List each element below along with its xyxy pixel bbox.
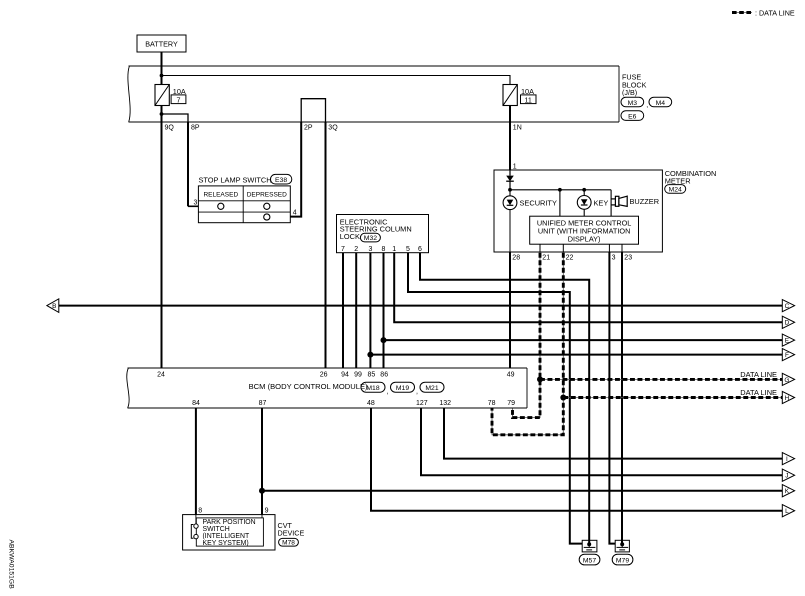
park switch contact bottom	[194, 534, 198, 538]
svg-text:BATTERY: BATTERY	[145, 40, 178, 49]
svg-text:D: D	[785, 320, 790, 327]
svg-text:4: 4	[293, 209, 297, 216]
node meter supply junction	[508, 188, 512, 192]
svg-text:M79: M79	[616, 557, 629, 564]
wire junction to UMCU	[559, 190, 561, 216]
svg-text:E6: E6	[628, 114, 637, 121]
svg-text:24: 24	[157, 372, 165, 379]
svg-text:2P: 2P	[304, 125, 313, 132]
svg-text:,: ,	[646, 102, 648, 109]
svg-text:1: 1	[392, 246, 396, 253]
wire BCM 132 to connector I	[444, 408, 782, 459]
horizontal wire B to C	[59, 305, 783, 307]
svg-text:22: 22	[566, 255, 574, 262]
svg-text:132: 132	[439, 400, 451, 407]
svg-text:78: 78	[488, 400, 496, 407]
svg-text:SECURITY: SECURITY	[520, 198, 557, 207]
svg-text:87: 87	[259, 400, 267, 407]
stop lamp switch table	[198, 186, 290, 223]
connector arrow C	[782, 300, 794, 312]
switch contact released	[218, 203, 224, 209]
BCM box	[127, 368, 527, 408]
svg-text:7: 7	[341, 246, 345, 253]
connector M57	[579, 554, 600, 565]
svg-text:3: 3	[368, 246, 372, 253]
svg-text:DATA LINE: DATA LINE	[740, 388, 777, 397]
wire meter internal bus	[510, 189, 611, 191]
svg-text:3: 3	[194, 199, 198, 206]
wire branch E to connector	[384, 339, 783, 341]
svg-text:85: 85	[368, 372, 376, 379]
wire meter 23 to ground M79	[621, 244, 623, 252]
node fuse output junction	[160, 112, 164, 116]
svg-text:LOCK: LOCK	[340, 232, 360, 241]
svg-text:DEPRESSED: DEPRESSED	[247, 191, 287, 198]
svg-text:127: 127	[416, 400, 428, 407]
wire ESCL pin6 to ground M57	[420, 253, 589, 545]
svg-text:DATA LINE: DATA LINE	[740, 370, 777, 379]
connector M24	[665, 185, 686, 194]
connector arrow H	[782, 391, 794, 403]
connector arrow L	[782, 505, 794, 517]
svg-text:84: 84	[192, 400, 200, 407]
wire BCM 127 to connector J	[421, 408, 782, 475]
svg-text:E38: E38	[275, 177, 287, 184]
connector arrow J	[782, 469, 794, 481]
svg-text:M78: M78	[282, 540, 295, 547]
svg-text:M3: M3	[628, 100, 638, 107]
svg-text:DISPLAY): DISPLAY)	[568, 235, 601, 244]
connector M4	[649, 97, 672, 107]
svg-text:9: 9	[265, 507, 269, 514]
svg-text:C: C	[785, 303, 790, 310]
svg-text:M21: M21	[425, 385, 438, 392]
ground M57	[582, 540, 597, 552]
svg-text:23: 23	[624, 255, 632, 262]
svg-text:5: 5	[406, 246, 410, 253]
svg-text:3Q: 3Q	[328, 125, 338, 132]
svg-text:8P: 8P	[191, 125, 200, 132]
svg-text:I: I	[786, 456, 788, 463]
node buzzer branch	[582, 188, 586, 192]
svg-text:11: 11	[524, 95, 531, 104]
connector M18	[361, 382, 389, 395]
buzzer	[611, 196, 659, 206]
svg-text:1N: 1N	[513, 125, 522, 132]
legend data line sample	[732, 12, 752, 14]
svg-text:F: F	[785, 352, 789, 359]
connector arrow I	[782, 453, 794, 465]
wire inner bus	[162, 76, 511, 85]
svg-text:48: 48	[367, 400, 375, 407]
svg-text:B: B	[52, 303, 56, 310]
svg-text:M57: M57	[583, 557, 596, 564]
wire meter 21 data line to BCM 79	[539, 244, 541, 252]
wire meter 3 to ground M79	[608, 244, 610, 252]
svg-text:2: 2	[354, 246, 358, 253]
park switch contact top	[194, 524, 198, 528]
wire ESCL pin8 to BCM 86	[383, 253, 385, 368]
svg-text:1: 1	[513, 164, 517, 171]
svg-text:6: 6	[418, 246, 422, 253]
svg-text:PARK POSITION: PARK POSITION	[203, 519, 256, 526]
node branch E	[381, 337, 387, 343]
connector arrow K	[782, 485, 794, 497]
svg-text:86: 86	[380, 372, 388, 379]
fuse block label	[622, 73, 647, 98]
svg-text:9Q: 9Q	[165, 125, 175, 132]
svg-text:99: 99	[354, 372, 362, 379]
svg-text:RELEASED: RELEASED	[203, 191, 238, 198]
wire BCM 48 to connector L	[371, 408, 782, 511]
fuse block (J/B) outline	[128, 66, 619, 122]
svg-text:KEY SYSTEM): KEY SYSTEM)	[203, 540, 249, 547]
svg-text:21: 21	[542, 255, 550, 262]
connector E6	[621, 111, 644, 121]
svg-text:(INTELLIGENT: (INTELLIGENT	[203, 533, 251, 540]
connector arrow E	[782, 334, 794, 346]
wire key led to UMCU	[583, 210, 585, 217]
wire ESCL pin7 to BCM 94	[342, 253, 344, 368]
park switch pin8 internal stub	[195, 515, 197, 524]
connector arrow B (left)	[47, 299, 59, 313]
key indicator LED	[577, 190, 608, 210]
combination meter label	[665, 169, 717, 186]
svg-text:3: 3	[612, 255, 616, 262]
unified meter control unit box	[530, 216, 639, 244]
node key branch	[558, 188, 562, 192]
fuse 11 10A	[503, 85, 536, 106]
stop lamp switch E38 title	[199, 174, 292, 184]
svg-text:7: 7	[177, 95, 181, 104]
svg-text:79: 79	[507, 400, 515, 407]
svg-text:L: L	[785, 508, 789, 515]
svg-text:M24: M24	[669, 187, 682, 194]
svg-text:,: ,	[416, 389, 418, 396]
CVT device label	[278, 521, 305, 537]
connector M78	[279, 538, 299, 546]
svg-text:BUZZER: BUZZER	[630, 197, 660, 206]
electronic steering column lock M32 box	[337, 215, 429, 253]
wire ESCL pin2 to BCM 99	[355, 253, 357, 368]
svg-text:M18: M18	[366, 385, 379, 392]
park position switch box	[183, 515, 275, 550]
wire ESCL pin5 to ground M57	[408, 253, 582, 544]
svg-text:(J/B): (J/B)	[622, 88, 637, 97]
svg-text:KEY: KEY	[594, 198, 609, 207]
data line wire H	[563, 397, 782, 399]
svg-text:M32: M32	[364, 235, 377, 242]
svg-text:26: 26	[320, 372, 328, 379]
wire buzzer feed	[610, 190, 612, 216]
svg-text:ABKWA0151GB: ABKWA0151GB	[8, 540, 15, 590]
wire battery to fuse block	[161, 52, 163, 85]
svg-text:G: G	[784, 377, 789, 384]
svg-text:28: 28	[512, 255, 520, 262]
wire security to BCM 49	[509, 210, 511, 252]
svg-text:K: K	[785, 488, 790, 495]
node battery bus junction	[160, 74, 164, 78]
diode D1	[506, 170, 514, 190]
connector M19	[391, 382, 419, 395]
connector M79	[612, 554, 633, 565]
switch contact depressed row1	[264, 203, 270, 209]
svg-text:SWITCH: SWITCH	[203, 526, 230, 533]
svg-text:METER: METER	[665, 176, 691, 185]
connector arrow G	[782, 373, 794, 385]
svg-text:M4: M4	[656, 100, 666, 107]
wire 2P to switch pin 4	[290, 122, 301, 217]
switch contact depressed row2	[264, 214, 270, 220]
connector M21	[420, 382, 444, 392]
wire BCM 84 to park switch pin 8	[195, 408, 197, 515]
ground M79	[615, 540, 629, 552]
svg-text:H: H	[785, 395, 790, 402]
wire ESCL pin1 to connector D	[394, 253, 782, 323]
node branch K	[259, 488, 265, 494]
wire 3Q to BCM pin 26	[325, 122, 327, 368]
wire branch F to connector	[370, 354, 782, 356]
battery B1	[137, 35, 186, 52]
svg-text:STOP LAMP SWITCH: STOP LAMP SWITCH	[199, 175, 272, 184]
wire 8P branch	[162, 114, 189, 122]
svg-text:,: ,	[387, 389, 389, 396]
node data junction G	[537, 376, 543, 382]
wire 2P-3Q bridge in fuse block	[301, 99, 325, 122]
svg-text:8: 8	[382, 246, 386, 253]
security indicator LED	[503, 190, 557, 210]
svg-text:49: 49	[507, 372, 515, 379]
connector arrow F	[782, 349, 794, 361]
wire 1N fuse 11 to combination meter	[509, 106, 511, 171]
combination meter box	[494, 170, 662, 252]
data line wire G	[540, 378, 782, 380]
svg-text:DEVICE: DEVICE	[278, 529, 305, 538]
node data junction H	[560, 395, 566, 401]
wire 9Q fuse to BCM pin 24	[161, 106, 163, 369]
wire BCM 87 to park switch pin 9	[261, 408, 263, 515]
connector arrow D	[782, 316, 794, 328]
connector M3	[621, 97, 648, 109]
wire ESCL pin3 to BCM 85	[369, 253, 371, 368]
svg-text:: DATA LINE: : DATA LINE	[755, 8, 795, 17]
svg-text:E: E	[785, 338, 789, 345]
svg-text:94: 94	[341, 372, 349, 379]
wire meter 22 data line to BCM 78	[562, 244, 564, 252]
node branch F	[367, 352, 373, 358]
park switch plunger	[191, 525, 193, 539]
park switch pin9 internal stub	[261, 515, 263, 518]
wire branch K to connector	[262, 490, 782, 492]
svg-text:BCM (BODY CONTROL MODULE): BCM (BODY CONTROL MODULE)	[249, 382, 368, 391]
svg-text:M19: M19	[396, 385, 409, 392]
svg-text:J: J	[785, 473, 788, 480]
fuse 7 10A	[155, 85, 186, 106]
svg-text:8: 8	[198, 507, 202, 514]
pin 3 stub	[188, 205, 198, 207]
